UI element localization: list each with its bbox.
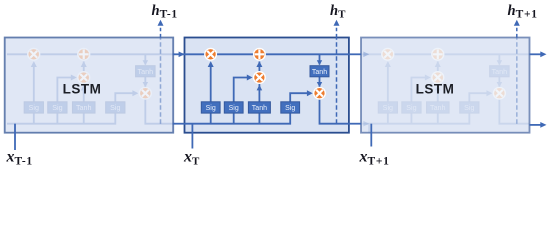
wire: cell state left to center [173,53,185,55]
wire: cell state exit right [530,53,542,55]
arrowhead cell state exit [540,51,546,57]
wire: h center to right [349,123,361,125]
svg-text:hT+1: hT+1 [508,3,538,20]
LSTM cell T+1 (faded) [355,38,530,133]
arrowhead h exit [540,122,546,128]
wire: x_T riser [191,133,193,149]
wire: x_T-1 riser [14,124,16,150]
LSTM cell T-1 (faded) [1,38,176,133]
wire: h left to center [173,123,185,125]
wire: dashed h_T-1 arrow [160,25,162,38]
arrowhead into right cell on cell line [363,52,369,58]
wire: dashed h_T+1 arrow [516,25,518,38]
svg-text:xT: xT [183,149,200,168]
wire: x_T+1 riser [370,124,372,147]
wire: dashed h_T arrow [336,25,338,38]
LSTM cell T (active) [179,38,349,133]
arrowhead h_T-1 up [158,20,164,26]
wire: h exit right [530,124,542,126]
arrowhead h_T+1 up [514,20,520,26]
svg-text:LSTM: LSTM [63,82,102,97]
svg-text:LSTM: LSTM [416,82,455,97]
svg-text:hT: hT [330,3,346,20]
svg-text:xT+1: xT+1 [359,149,390,168]
arrowhead h_T up [334,20,340,26]
svg-text:xT-1: xT-1 [6,149,33,168]
wire: cell state center to right [349,53,361,55]
arrowhead into right cell on h line [363,121,369,127]
svg-text:hT-1: hT-1 [152,3,178,20]
